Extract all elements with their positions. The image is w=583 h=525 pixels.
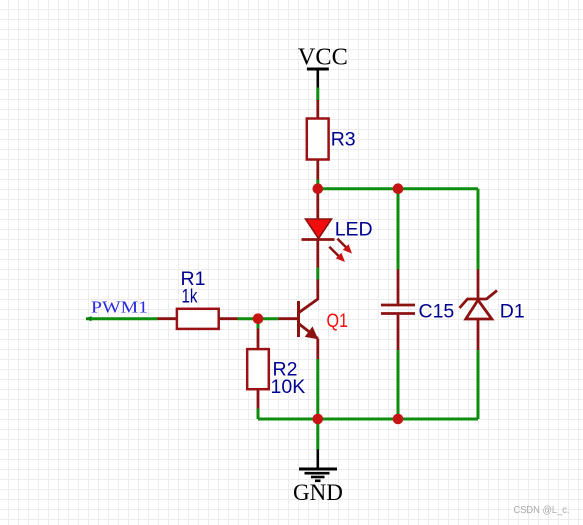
pin Q1 base — [279, 317, 299, 320]
pin LED cathode — [316, 240, 319, 268]
zener diode D1 — [460, 291, 525, 323]
svg-text:R3: R3 — [331, 129, 356, 151]
svg-text:GND: GND — [293, 480, 343, 505]
pin R1 right — [219, 317, 238, 320]
wire D1 to rail — [477, 350, 480, 419]
capacitor C15 — [381, 300, 454, 322]
pin C15 top — [397, 270, 400, 304]
LED D? triangle — [302, 219, 373, 262]
pin R2 top — [257, 329, 260, 350]
resistor R1 — [177, 268, 219, 329]
resistor R2 — [247, 349, 305, 398]
pin R3 top — [316, 100, 319, 119]
svg-text:VCC: VCC — [298, 44, 348, 71]
wire LED to Q1 collector — [316, 268, 319, 280]
wire top rail — [318, 187, 478, 190]
svg-text:C15: C15 — [419, 300, 455, 322]
pin LED anode — [316, 189, 319, 219]
svg-text:10K: 10K — [271, 376, 306, 398]
power symbol VCC — [298, 44, 348, 88]
pin R2 bottom — [257, 389, 260, 408]
pin D1 bottom — [477, 319, 480, 350]
junction node emitter-rail — [313, 414, 324, 425]
transistor Q1 — [299, 280, 349, 360]
wire bottom rail — [258, 418, 478, 421]
wire R2 to rail — [257, 409, 260, 420]
resistor R3 — [307, 119, 356, 160]
wire R3 to node — [316, 180, 319, 189]
wire node down to R2 — [257, 319, 260, 329]
svg-text:D1: D1 — [500, 300, 525, 322]
LED arrow 2 — [329, 247, 339, 257]
svg-text:LED: LED — [335, 219, 373, 241]
ground — [293, 450, 343, 506]
wire rail to ground — [316, 419, 319, 450]
svg-text:1k: 1k — [182, 286, 198, 308]
svg-text:PWM1: PWM1 — [91, 298, 148, 317]
pin R1 left — [158, 317, 178, 320]
svg-text:CSDN @L_c.: CSDN @L_c. — [514, 505, 570, 516]
junction node top-mid — [393, 183, 404, 194]
pin D1 top — [477, 270, 480, 300]
wire top rail to C15 — [397, 189, 400, 270]
wire emitter to rail — [316, 359, 319, 419]
junction node top-left — [313, 183, 324, 194]
wire R1 to node — [238, 317, 279, 320]
pin R3 bottom — [316, 160, 319, 180]
junction node C15-rail — [393, 414, 404, 425]
wire PWM1 — [86, 316, 158, 321]
svg-text:Q1: Q1 — [327, 310, 349, 332]
wire VCC stub — [316, 88, 319, 101]
junction node base — [253, 313, 264, 324]
pin C15 bottom — [397, 315, 400, 350]
LED arrow 1 — [337, 239, 346, 248]
wire C15 to rail — [397, 350, 400, 419]
wire top rail right corner down to D1 — [477, 189, 480, 270]
